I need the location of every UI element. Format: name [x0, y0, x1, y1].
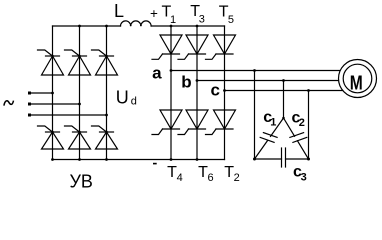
node dot bottom bus col2: [78, 158, 81, 161]
node dot thyristor VS4 gate: [51, 131, 54, 134]
node dot thyristor VS1 gate: [51, 55, 54, 58]
svg-text:3: 3: [301, 172, 307, 184]
node dot phase c / C drop: [307, 89, 310, 92]
svg-text:1: 1: [270, 116, 276, 128]
node dot bottom bus col3: [105, 158, 108, 161]
node dot bottom bus T4: [170, 158, 173, 161]
svg-text:a: a: [152, 63, 162, 82]
thyristor T1: [152, 35, 182, 59]
wire phase c to motor: [225, 90, 344, 92]
svg-text:2: 2: [299, 117, 305, 129]
svg-text:d: d: [131, 95, 137, 107]
AC phase wire 1: [30, 92, 53, 94]
thyristor VS1 (rectifier top row, col 1): [38, 50, 64, 75]
inductor cusp dot 2: [140, 25, 142, 27]
label ~ (AC source): [4, 101, 14, 106]
node dot phase b / C drop: [282, 79, 285, 82]
node dot top bus col3: [105, 25, 108, 28]
node dot AC3-col3: [105, 114, 108, 117]
node dot top bus T1: [170, 25, 173, 28]
thyristor VS5 (rectifier bottom row, col 2): [65, 126, 91, 149]
thyristor T3: [178, 35, 208, 59]
AC terminal square 2: [28, 103, 31, 106]
AC phase wire 2: [30, 103, 80, 105]
svg-text:T: T: [167, 164, 177, 181]
wire rectifier column 3: [106, 26, 108, 160]
thyristor T4: [152, 110, 182, 135]
svg-text:c: c: [211, 81, 220, 100]
thyristor T6: [178, 110, 208, 135]
node dot top bus T3: [196, 25, 199, 28]
svg-text:5: 5: [228, 14, 234, 26]
node dot AC2-col2: [78, 103, 81, 106]
thyristor T5: [206, 35, 236, 59]
AC terminal square 1: [28, 92, 31, 95]
wire inverter column 1 (T1/T4): [170, 26, 172, 160]
capacitor C2 (right diagonal of delta): [284, 118, 309, 159]
label - (minus): [153, 163, 157, 165]
AC terminal square 3: [28, 114, 31, 117]
node dot delta bottom left: [253, 158, 256, 161]
capacitor C3 (bottom of delta): [255, 148, 309, 167]
node dot thyristor VS2 gate: [78, 55, 81, 58]
wire phase b to motor: [197, 80, 341, 82]
node c dot: [223, 89, 226, 92]
node a dot: [170, 69, 173, 72]
svg-text:6: 6: [208, 172, 214, 184]
svg-text:b: b: [181, 72, 191, 91]
thyristor VS2 (rectifier top row, col 2): [65, 50, 91, 75]
wire rectifier column 1: [52, 26, 54, 160]
node dot phase a / C drop: [253, 69, 256, 72]
wire inverter column 3 (T5/T2): [224, 26, 226, 160]
node dot bottom bus col1: [51, 158, 54, 161]
thyristor VS6 (rectifier bottom row, col 3): [92, 126, 118, 149]
node dot delta bottom right: [307, 158, 310, 161]
node dot AC1-col1: [51, 92, 54, 95]
thyristor VS3 (rectifier top row, col 3): [92, 50, 118, 75]
svg-text:3: 3: [199, 13, 205, 25]
inductor cusp dot 1: [130, 25, 132, 27]
node b dot: [196, 79, 199, 82]
svg-text:M: M: [350, 72, 363, 94]
thyristor VS4 (rectifier bottom row, col 1): [38, 126, 64, 149]
svg-text:4: 4: [177, 172, 183, 184]
wire phase a to motor: [171, 70, 343, 72]
AC phase wire 3: [30, 114, 107, 116]
svg-text:2: 2: [234, 172, 240, 184]
motor M circles: [339, 60, 377, 98]
node dot delta apex: [282, 117, 285, 120]
wire capacitor drop from phase b: [283, 81, 285, 119]
inductor L: [121, 21, 152, 26]
wire bottom DC- bus: [53, 159, 225, 161]
node dot top bus col2: [78, 25, 81, 28]
svg-text:+: +: [150, 6, 158, 21]
node dot thyristor VS5 gate: [78, 131, 81, 134]
thyristor T2: [206, 110, 236, 135]
wire capacitor drop from phase a: [254, 71, 256, 160]
svg-text:УВ: УВ: [70, 171, 93, 191]
wire inverter column 2 (T3/T6): [196, 26, 198, 160]
svg-text:1: 1: [170, 14, 176, 26]
svg-text:U: U: [116, 87, 129, 107]
wire top DC+ bus right segment: [151, 25, 224, 27]
wire rectifier column 2: [79, 26, 81, 160]
node dot bottom bus T6: [196, 158, 199, 161]
node dot thyristor VS3 gate: [105, 55, 108, 58]
capacitor C1 (left diagonal of delta): [255, 118, 284, 159]
wire capacitor drop from phase c: [308, 91, 310, 160]
svg-text:L: L: [114, 1, 124, 21]
wire top DC+ bus left segment: [53, 25, 121, 27]
node dot thyristor VS6 gate: [105, 131, 108, 134]
